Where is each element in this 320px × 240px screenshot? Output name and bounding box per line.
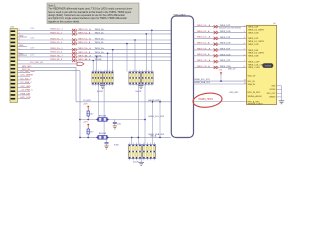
svg-text:+5V_PWR_C: +5V_PWR_C bbox=[21, 90, 34, 92]
svg-text:TMDS_D2-: TMDS_D2- bbox=[95, 32, 105, 34]
svg-text:3: 3 bbox=[19, 39, 20, 41]
wire to IC ground bbox=[281, 86, 283, 101]
diff pair directive right row 2 bbox=[214, 31, 218, 34]
wire TMDS row 3 (TMDS_D1+_C) bbox=[18, 38, 172, 41]
wire TMDS row 1 (TMDS_D2+_C) bbox=[18, 28, 172, 31]
wire TMDS row 2 (TMDS_D2-_C) bbox=[18, 32, 172, 34]
svg-text:TMDS_D0+_5: TMDS_D0+_5 bbox=[50, 48, 64, 50]
wire TMDS row 1 right (TMDS_D2+_A) bbox=[194, 24, 247, 27]
svg-text:TMDS_D0-: TMDS_D0- bbox=[95, 52, 105, 54]
net label TMDS_D0P bbox=[220, 48, 245, 50]
svg-text:SWING_ADJ34: SWING_ADJ34 bbox=[248, 95, 263, 98]
net label TMDS_D2N bbox=[220, 31, 245, 33]
wire shield stub y=37.0 bbox=[18, 36, 28, 38]
svg-text:15: 15 bbox=[244, 82, 246, 84]
IC U1 dark badge bbox=[262, 63, 273, 68]
op text above IC: part name bbox=[219, 28, 242, 30]
wire TMDS row 5 right (TMDS_D0+_A) bbox=[194, 47, 247, 50]
svg-text:SDA_IN: SDA_IN bbox=[248, 83, 256, 86]
svg-text:HPD_OUT: HPD_OUT bbox=[267, 93, 276, 95]
power +5V pullup at IC side bbox=[219, 68, 237, 82]
svg-text:TMDS_D0P: TMDS_D0P bbox=[248, 50, 259, 52]
svg-text:TMDS_D0+_A: TMDS_D0+_A bbox=[78, 47, 92, 50]
svg-text:PWR_DET: PWR_DET bbox=[21, 93, 32, 95]
svg-text:4K7: 4K7 bbox=[90, 114, 93, 116]
diff pair directive row 8 bbox=[72, 59, 76, 62]
svg-text:HDMI_SCL_3V3: HDMI_SCL_3V3 bbox=[149, 116, 165, 118]
svg-text:HDMI_SCL_3V3: HDMI_SCL_3V3 bbox=[195, 79, 211, 81]
svg-text:TMDS_CK-_A: TMDS_CK-_A bbox=[197, 65, 211, 68]
net label TMDS_D0N bbox=[220, 54, 245, 56]
svg-text:TMDS_AK-_A: TMDS_AK-_A bbox=[78, 58, 91, 61]
HDMI cable P1 (rounded outline) bbox=[150, 13, 194, 137]
svg-text:TMDS_D0P: TMDS_D0P bbox=[220, 48, 231, 50]
svg-text:VDD_5V: VDD_5V bbox=[228, 68, 236, 70]
power +3V3 pullup R SDA bbox=[83, 122, 90, 129]
wire TMDS row 6 (TMDS_D0-_C) bbox=[18, 52, 172, 54]
svg-text:TMDS_8K-_8: TMDS_8K-_8 bbox=[50, 59, 63, 61]
svg-text:HPD_SRC: HPD_SRC bbox=[22, 66, 32, 68]
net label TMDS_D1N bbox=[220, 43, 245, 45]
IC right pin 1 bbox=[277, 85, 282, 87]
svg-text:GND: GND bbox=[19, 54, 24, 56]
svg-text:TMDS_D1_CMPS: TMDS_D1_CMPS bbox=[248, 41, 265, 43]
svg-text:TMDS_D2-_A: TMDS_D2-_A bbox=[197, 30, 211, 33]
svg-text:TMDS_D1+_A: TMDS_D1+_A bbox=[197, 36, 211, 39]
wire HDMI_SCL level-shifter row bbox=[80, 119, 146, 121]
diff pair directive right row 5 bbox=[214, 48, 218, 51]
svg-text:SWING: SWING bbox=[269, 97, 276, 99]
net label TMDS_D1-_C mid bbox=[78, 41, 105, 44]
wire TMDS row 3 right (TMDS_D1+_A) bbox=[194, 36, 247, 39]
note box Note 1 bbox=[47, 3, 139, 24]
svg-text:GND: GND bbox=[271, 86, 276, 88]
svg-text:+3V3: +3V3 bbox=[83, 122, 87, 124]
wire TMDS row 4 (TMDS_D1-_C) bbox=[18, 42, 172, 44]
svg-text:100n: 100n bbox=[117, 124, 121, 126]
svg-text:HDMI_SDA_3V3: HDMI_SDA_3V3 bbox=[195, 81, 211, 84]
wire TMDS row 5 (TMDS_D0+_C) bbox=[18, 47, 172, 50]
wire HDMI_HPD right bbox=[194, 79, 247, 101]
diff pair directive row 2 bbox=[72, 32, 76, 35]
wire TMDS row 4 right (TMDS_D1-_A) bbox=[194, 42, 247, 45]
wire HPD branch to SDA row bbox=[159, 101, 161, 138]
svg-text:1: 1 bbox=[244, 25, 245, 27]
resistor pack RN2 (8x ESD/50R) bbox=[129, 70, 153, 86]
svg-text:TMDS_D2+_A: TMDS_D2+_A bbox=[197, 24, 211, 27]
wire tap HPD to RN3 bbox=[152, 101, 154, 144]
svg-text:TMDS_D1-_A: TMDS_D1-_A bbox=[78, 41, 91, 44]
svg-text:I2C_CEC_IN: I2C_CEC_IN bbox=[30, 62, 43, 64]
ground below RN3 bbox=[139, 159, 145, 166]
net label TMDS_CK+_C mid bbox=[78, 54, 103, 57]
svg-text:5: 5 bbox=[19, 48, 20, 50]
svg-text:TMDS_D0_CMPS: TMDS_D0_CMPS bbox=[248, 53, 265, 55]
svg-text:TMDS_D1P: TMDS_D1P bbox=[248, 38, 259, 40]
svg-text:TMDS_D1N: TMDS_D1N bbox=[220, 43, 231, 45]
wire TMDS row 2 right (TMDS_D2-_A) bbox=[194, 30, 247, 33]
wire stub pin 15 I2C_SDA_C bbox=[18, 81, 33, 84]
net label TMDS_D1P bbox=[220, 37, 245, 39]
svg-text:7: 7 bbox=[19, 56, 20, 58]
diff pair directive row 3 bbox=[72, 38, 76, 41]
svg-text:HPD_IN_SRC: HPD_IN_SRC bbox=[248, 92, 261, 94]
svg-text:TMDS_D1-_4: TMDS_D1-_4 bbox=[50, 42, 63, 44]
net label HDMI4_HPD1 bbox=[199, 99, 214, 101]
wire TMDS row 7 right (TMDS_CK+_A) bbox=[194, 59, 247, 62]
wire tap SDA to RN3 bbox=[131, 137, 133, 144]
wire HDMI_SCL right bbox=[194, 79, 247, 81]
wire CEC (pin 9 row) bbox=[18, 62, 78, 64]
IC right pin 4 bbox=[277, 96, 282, 98]
svg-text:TMDS_D1-: TMDS_D1- bbox=[95, 42, 105, 44]
svg-text:TMDS_D2+_1: TMDS_D2+_1 bbox=[50, 29, 64, 31]
ground below RN1 bbox=[100, 84, 105, 88]
diff pair directive row 5 bbox=[72, 48, 76, 51]
svg-text:16: 16 bbox=[244, 79, 246, 81]
svg-text:BSS138: BSS138 bbox=[99, 133, 107, 135]
net label TMDS_CK-_C mid bbox=[78, 58, 102, 61]
svg-text:TMDS_D2+: TMDS_D2+ bbox=[95, 29, 106, 31]
capacitor C_SCL to ground bbox=[113, 120, 121, 129]
svg-text:4x10K: 4x10K bbox=[133, 162, 139, 164]
svg-text:TMDS_D1+_3: TMDS_D1+_3 bbox=[50, 38, 64, 40]
wire HDMI_SDA right bbox=[194, 81, 247, 84]
svg-text:2: 2 bbox=[244, 31, 245, 33]
svg-text:TMDS_D2N: TMDS_D2N bbox=[220, 31, 231, 33]
svg-text:TMDS_CLKN: TMDS_CLKN bbox=[248, 67, 261, 69]
diff pair directive right row 6 bbox=[214, 54, 218, 57]
wire TMDS row 7 (TMDS_CK+_C) bbox=[18, 55, 172, 58]
wire shield stub y=55.1 bbox=[18, 54, 28, 56]
diff pair directive right row 4 bbox=[214, 43, 218, 46]
capacitor C_SDA to ground bbox=[104, 137, 108, 149]
power +3V3 pullup R SCL bbox=[83, 103, 90, 110]
ground IC bbox=[279, 101, 285, 104]
svg-text:GND: GND bbox=[19, 45, 24, 47]
svg-text:+3V3: +3V3 bbox=[83, 103, 87, 105]
svg-text:4K7: 4K7 bbox=[90, 132, 93, 134]
junction + tap row 6 to resistor pack bbox=[107, 53, 109, 72]
net label TMDS_D2-_C mid bbox=[78, 31, 105, 34]
svg-text:TMDS_D0-_6: TMDS_D0-_6 bbox=[50, 52, 63, 54]
wire stub pin 13 UTIL_SENSE bbox=[18, 75, 34, 77]
svg-text:5: 5 bbox=[244, 49, 245, 51]
svg-text:TMDS_D2_CMPS: TMDS_D2_CMPS bbox=[248, 29, 265, 31]
svg-text:TMDS_D0N: TMDS_D0N bbox=[248, 56, 259, 58]
resistor R_SDA pullup bbox=[87, 128, 93, 137]
svg-text:TMDS_D2N: TMDS_D2N bbox=[248, 32, 259, 34]
diff pair directive right row 8 bbox=[214, 66, 218, 69]
svg-text:SN65DP141 REDRIVER: SN65DP141 REDRIVER bbox=[219, 28, 242, 30]
wire stub pin 14 I2C_SCL_C bbox=[18, 78, 32, 80]
wire stub pin 16 DDC_GND bbox=[18, 86, 32, 88]
svg-text:HDMI CABLE: HDMI CABLE bbox=[173, 13, 186, 16]
IC right pin 2 bbox=[277, 89, 282, 91]
svg-text:TMDSK+: TMDSK+ bbox=[95, 55, 104, 57]
diff pair directive row 1 bbox=[72, 29, 76, 32]
svg-text:3: 3 bbox=[244, 37, 245, 39]
net label TMDS_D2P bbox=[220, 25, 245, 27]
svg-text:8x50R: 8x50R bbox=[136, 91, 142, 93]
svg-text:C246: C246 bbox=[30, 38, 34, 40]
wire HDMI_HPD to cable bbox=[76, 100, 171, 102]
svg-text:TMDS_D2+_A: TMDS_D2+_A bbox=[78, 28, 92, 31]
svg-text:TMDS_CLKP: TMDS_CLKP bbox=[248, 61, 261, 63]
svg-text:TMDS_D0+: TMDS_D0+ bbox=[95, 48, 106, 50]
diff pair directive row 7 bbox=[72, 55, 76, 58]
svg-text:SCL_IN: SCL_IN bbox=[248, 81, 256, 83]
port I2C_CEC bbox=[77, 62, 84, 65]
svg-text:C248: C248 bbox=[30, 47, 34, 49]
svg-text:TMDS_D1-_A: TMDS_D1-_A bbox=[197, 42, 211, 45]
svg-text:TMDSK-: TMDSK- bbox=[95, 59, 103, 61]
svg-text:VDD33: VDD33 bbox=[270, 89, 276, 91]
wire vertical DDC branch bbox=[18, 69, 81, 137]
net label TMDS_D0+_C mid bbox=[78, 47, 106, 50]
svg-text:HPD_CON: HPD_CON bbox=[21, 97, 32, 99]
svg-text:8: 8 bbox=[244, 66, 245, 68]
svg-text:C244: C244 bbox=[30, 28, 34, 30]
svg-text:4: 4 bbox=[244, 43, 245, 45]
wire RN2 bottom to SDA row bbox=[137, 84, 139, 144]
wire RN2 bottom through SCL to RN3 bbox=[144, 84, 146, 144]
label RN1 value bbox=[97, 91, 103, 93]
svg-text:(HDMI_HPD): (HDMI_HPD) bbox=[148, 100, 161, 102]
wire RN1 bottom to SDA row bbox=[103, 84, 105, 137]
wire TMDS row 8 (TMDS_CK-_C) bbox=[18, 59, 172, 61]
svg-text:4: 4 bbox=[19, 42, 20, 44]
junction + tap row 8 to resistor pack bbox=[92, 60, 94, 72]
svg-text:GND: GND bbox=[19, 36, 24, 38]
wire stub pin 19 HPD_CON bbox=[18, 97, 32, 99]
net label TMDS_D2+_C mid bbox=[78, 28, 106, 31]
junction + tap row 5 to resistor pack bbox=[112, 49, 114, 72]
diff pair directive right row 1 bbox=[214, 25, 218, 28]
svg-text:DDC_5V: DDC_5V bbox=[22, 69, 31, 71]
svg-text:SWNGA_TXBLP: SWNGA_TXBLP bbox=[248, 103, 264, 106]
net label TMDS_D1+_C mid bbox=[78, 38, 106, 41]
svg-text:ONSEMI: ONSEMI bbox=[264, 66, 271, 68]
svg-text:TMDS_D1+: TMDS_D1+ bbox=[95, 39, 106, 41]
net label HDMI_SCL_3V3 bbox=[149, 116, 165, 118]
svg-text:TMDS_CK+_A: TMDS_CK+_A bbox=[197, 59, 211, 62]
diff pair directive right row 3 bbox=[214, 37, 218, 40]
svg-text:BSS138: BSS138 bbox=[99, 115, 107, 117]
svg-text:I2C_SCL_C: I2C_SCL_C bbox=[21, 78, 32, 80]
svg-text:TMDS_D0-_A: TMDS_D0-_A bbox=[78, 51, 91, 54]
svg-text:1: 1 bbox=[19, 29, 20, 31]
highlight ellipse around HDMI4_HPD1 bbox=[192, 92, 223, 109]
net label HDMI_SDA_3V3 bbox=[149, 133, 165, 136]
svg-text:TMDS_D2-_2: TMDS_D2-_2 bbox=[50, 32, 63, 34]
diff pair directive row 4 bbox=[72, 42, 76, 45]
svg-text:TMDS_7K+_7: TMDS_7K+_7 bbox=[50, 55, 64, 57]
resistor pack RN3 (pullups) bbox=[128, 143, 156, 161]
svg-text:TMDS_D0+_A: TMDS_D0+_A bbox=[197, 47, 211, 50]
wire stub pin 18 PWR_DET bbox=[18, 93, 32, 95]
wire HDMI_SDA level-shifter row bbox=[79, 137, 171, 139]
junction + tap row 7 to resistor pack bbox=[96, 56, 98, 71]
wire shield stub y=46.7 bbox=[18, 45, 28, 47]
wire TMDS row 8 right (TMDS_CK-_A) bbox=[194, 65, 247, 68]
svg-text:CEC_A: CEC_A bbox=[150, 134, 157, 137]
junction + tap row 3 to resistor pack bbox=[134, 39, 136, 71]
svg-text:2: 2 bbox=[19, 33, 20, 35]
svg-text:TMDS_D2-_A: TMDS_D2-_A bbox=[78, 31, 91, 34]
label RN3 value bbox=[114, 145, 139, 164]
wire stub pin 12 I2C_CEC_GND bbox=[18, 71, 36, 73]
net label TMDS_CKN bbox=[220, 66, 245, 68]
svg-text:I2C_SDA_C: I2C_SDA_C bbox=[21, 81, 33, 84]
net label TMDS_CKP bbox=[220, 60, 245, 62]
label RN2 value bbox=[136, 91, 142, 93]
svg-text:TMDS_D0-_A: TMDS_D0-_A bbox=[197, 53, 211, 56]
wire TMDS row 6 right (TMDS_D0-_A) bbox=[194, 53, 247, 56]
resistor pack RN1 (8x ESD/50R) bbox=[92, 70, 113, 86]
redriver IC U1 bbox=[247, 23, 277, 105]
diff pair directive row 6 bbox=[72, 52, 76, 55]
resistor R_SCL pullup bbox=[87, 110, 93, 120]
svg-text:8: 8 bbox=[19, 59, 20, 61]
IC right pin 3 bbox=[277, 92, 282, 94]
svg-text:I2C_CEC_GND: I2C_CEC_GND bbox=[21, 71, 36, 73]
wire stub pin 17 +5V_PWR_C bbox=[18, 90, 34, 92]
connector CN4 HDMI receptacle bbox=[10, 27, 18, 103]
diff pair directive right row 7 bbox=[214, 60, 218, 63]
svg-text:6: 6 bbox=[244, 54, 245, 56]
junction + tap row 1 to resistor pack bbox=[151, 30, 153, 72]
svg-text:8x50R: 8x50R bbox=[97, 91, 103, 93]
svg-text:TMDS_D2P: TMDS_D2P bbox=[248, 27, 259, 29]
svg-text:TMDS_D1P: TMDS_D1P bbox=[220, 37, 231, 39]
junction + tap row 2 to resistor pack bbox=[146, 33, 148, 71]
wire RN1 bottom to SCL row bbox=[98, 84, 100, 119]
svg-text:UTIL_SENSE: UTIL_SENSE bbox=[21, 75, 34, 77]
svg-text:HPD_SRC: HPD_SRC bbox=[230, 92, 240, 94]
svg-text:signals on this custom shield.: signals on this custom shield. bbox=[48, 20, 80, 23]
svg-text:HDMI4_HPD1: HDMI4_HPD1 bbox=[199, 99, 214, 101]
svg-text:TP_HPD: TP_HPD bbox=[83, 100, 91, 102]
junction + tap row 4 to resistor pack bbox=[126, 43, 128, 72]
svg-text:DDC_GND: DDC_GND bbox=[21, 86, 32, 88]
svg-text:TMDS_D1+_A: TMDS_D1+_A bbox=[78, 38, 92, 41]
svg-text:TMDS_D1N: TMDS_D1N bbox=[248, 44, 259, 46]
svg-text:TMDS_AK+_A: TMDS_AK+_A bbox=[78, 54, 92, 57]
net label TMDS_D0-_C mid bbox=[78, 51, 105, 54]
wire vertical to HPD row bbox=[18, 66, 77, 102]
ground below RN2 bbox=[139, 84, 144, 88]
svg-text:C250: C250 bbox=[30, 55, 34, 57]
svg-text:VDD_5V: VDD_5V bbox=[248, 76, 256, 78]
svg-text:TMDS_D0N: TMDS_D0N bbox=[220, 54, 231, 56]
svg-text:7: 7 bbox=[244, 60, 245, 62]
svg-text:TMDS_CKP: TMDS_CKP bbox=[220, 60, 232, 62]
